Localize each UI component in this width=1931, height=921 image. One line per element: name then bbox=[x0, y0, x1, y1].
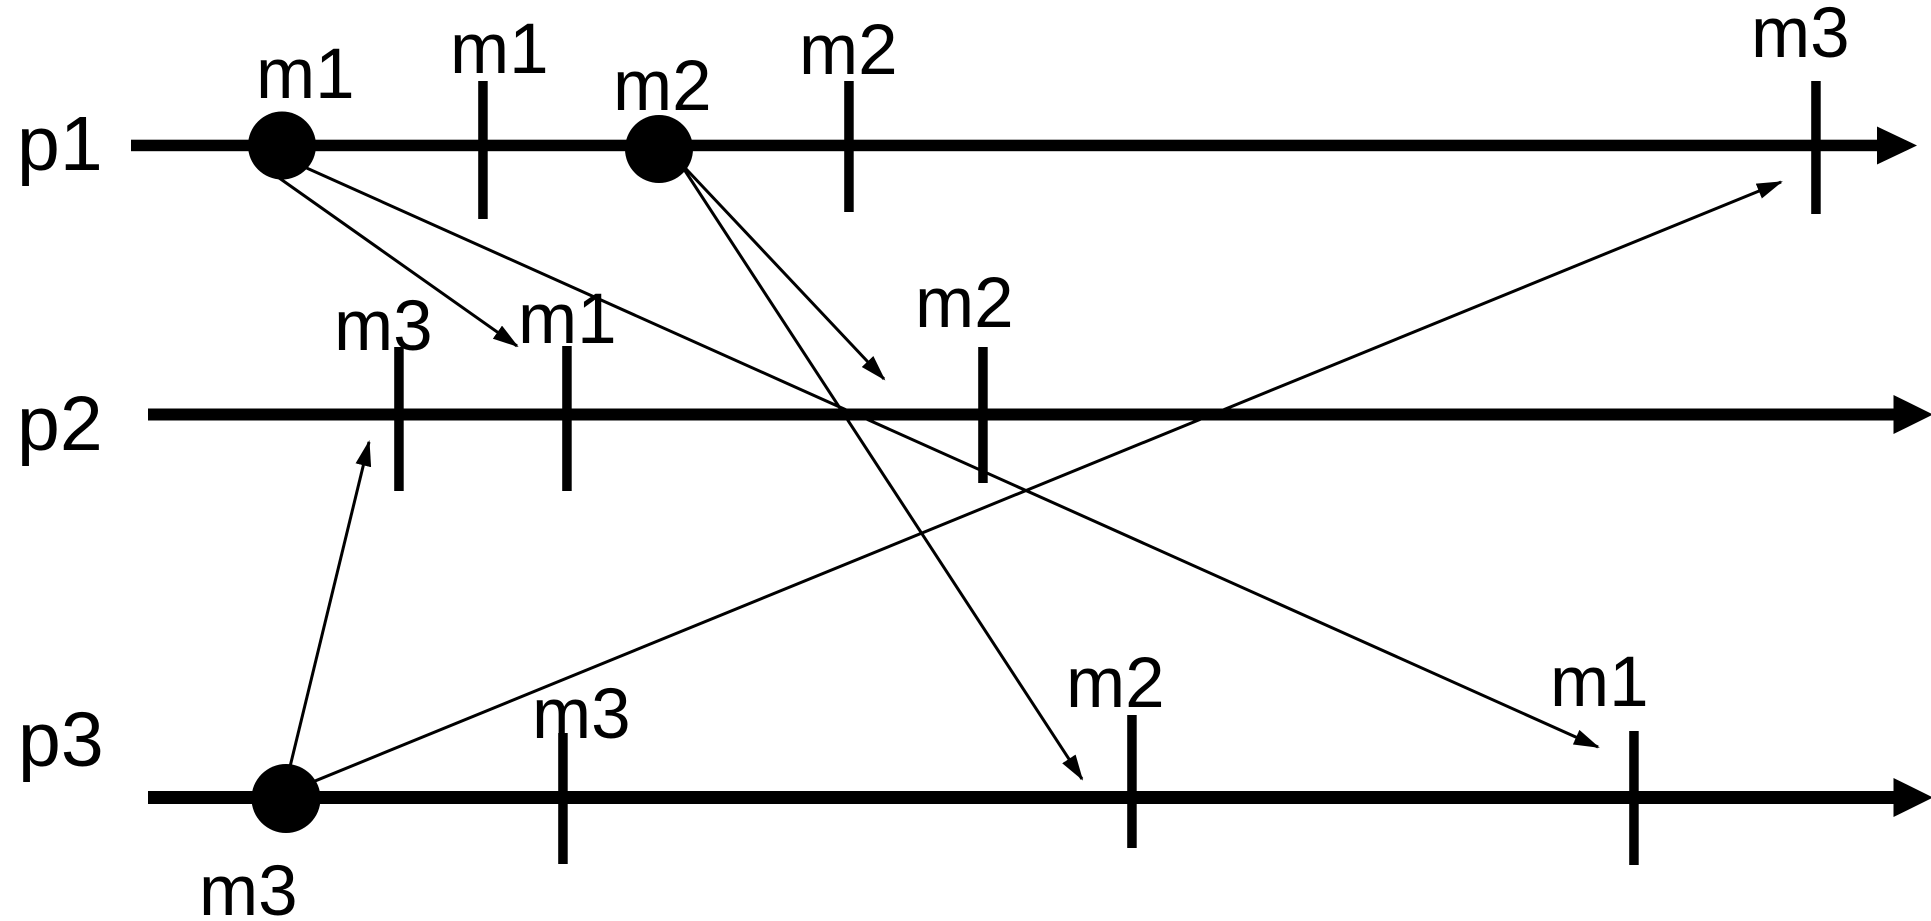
svg-text:m3: m3 bbox=[334, 287, 433, 366]
tick m3 on p1 bbox=[1811, 81, 1821, 214]
send event m1 on p1 bbox=[248, 112, 316, 180]
svg-text:m1: m1 bbox=[450, 10, 549, 89]
svg-text:m1: m1 bbox=[256, 35, 355, 114]
message arrow m1 from p1 to p3 bbox=[295, 163, 1598, 747]
svg-text:m1: m1 bbox=[1550, 643, 1649, 722]
process timeline p2 bbox=[148, 395, 1931, 434]
svg-text:m2: m2 bbox=[799, 11, 898, 90]
tick m1 on p3 bbox=[1629, 731, 1639, 865]
tick m3 on p3 bbox=[558, 733, 568, 864]
svg-text:m2: m2 bbox=[915, 264, 1014, 343]
svg-text:p2: p2 bbox=[17, 381, 103, 467]
process timeline p1 bbox=[131, 127, 1917, 165]
tick m2 on p2 bbox=[978, 347, 988, 483]
message arrow m2 from p1 to p3 bbox=[678, 160, 1082, 779]
process timeline p3 bbox=[148, 778, 1931, 817]
svg-text:m1: m1 bbox=[518, 280, 617, 359]
svg-text:p3: p3 bbox=[18, 697, 104, 783]
svg-text:m2: m2 bbox=[1066, 644, 1165, 723]
send event m2 on p1 bbox=[625, 115, 693, 183]
message arrow m1 from p1 to p2 bbox=[270, 171, 517, 346]
svg-text:m3: m3 bbox=[1751, 0, 1850, 73]
tick m1 on p2 bbox=[562, 346, 572, 491]
tick m2 on p1 bbox=[844, 81, 854, 212]
message arrow m2 from p1 to p2 bbox=[678, 160, 884, 379]
tick m2 on p3 bbox=[1127, 715, 1137, 848]
tick m3 on p2 bbox=[394, 347, 404, 491]
tick m1 on p1 bbox=[478, 81, 488, 219]
svg-text:m2: m2 bbox=[613, 47, 712, 126]
svg-text:p1: p1 bbox=[17, 101, 103, 187]
message arrow m3 from p3 to p1 bbox=[301, 182, 1781, 787]
message arrow m3 from p3 to p2 bbox=[288, 442, 369, 775]
svg-text:m3: m3 bbox=[199, 852, 298, 916]
send event m3 on p3 bbox=[252, 764, 321, 833]
